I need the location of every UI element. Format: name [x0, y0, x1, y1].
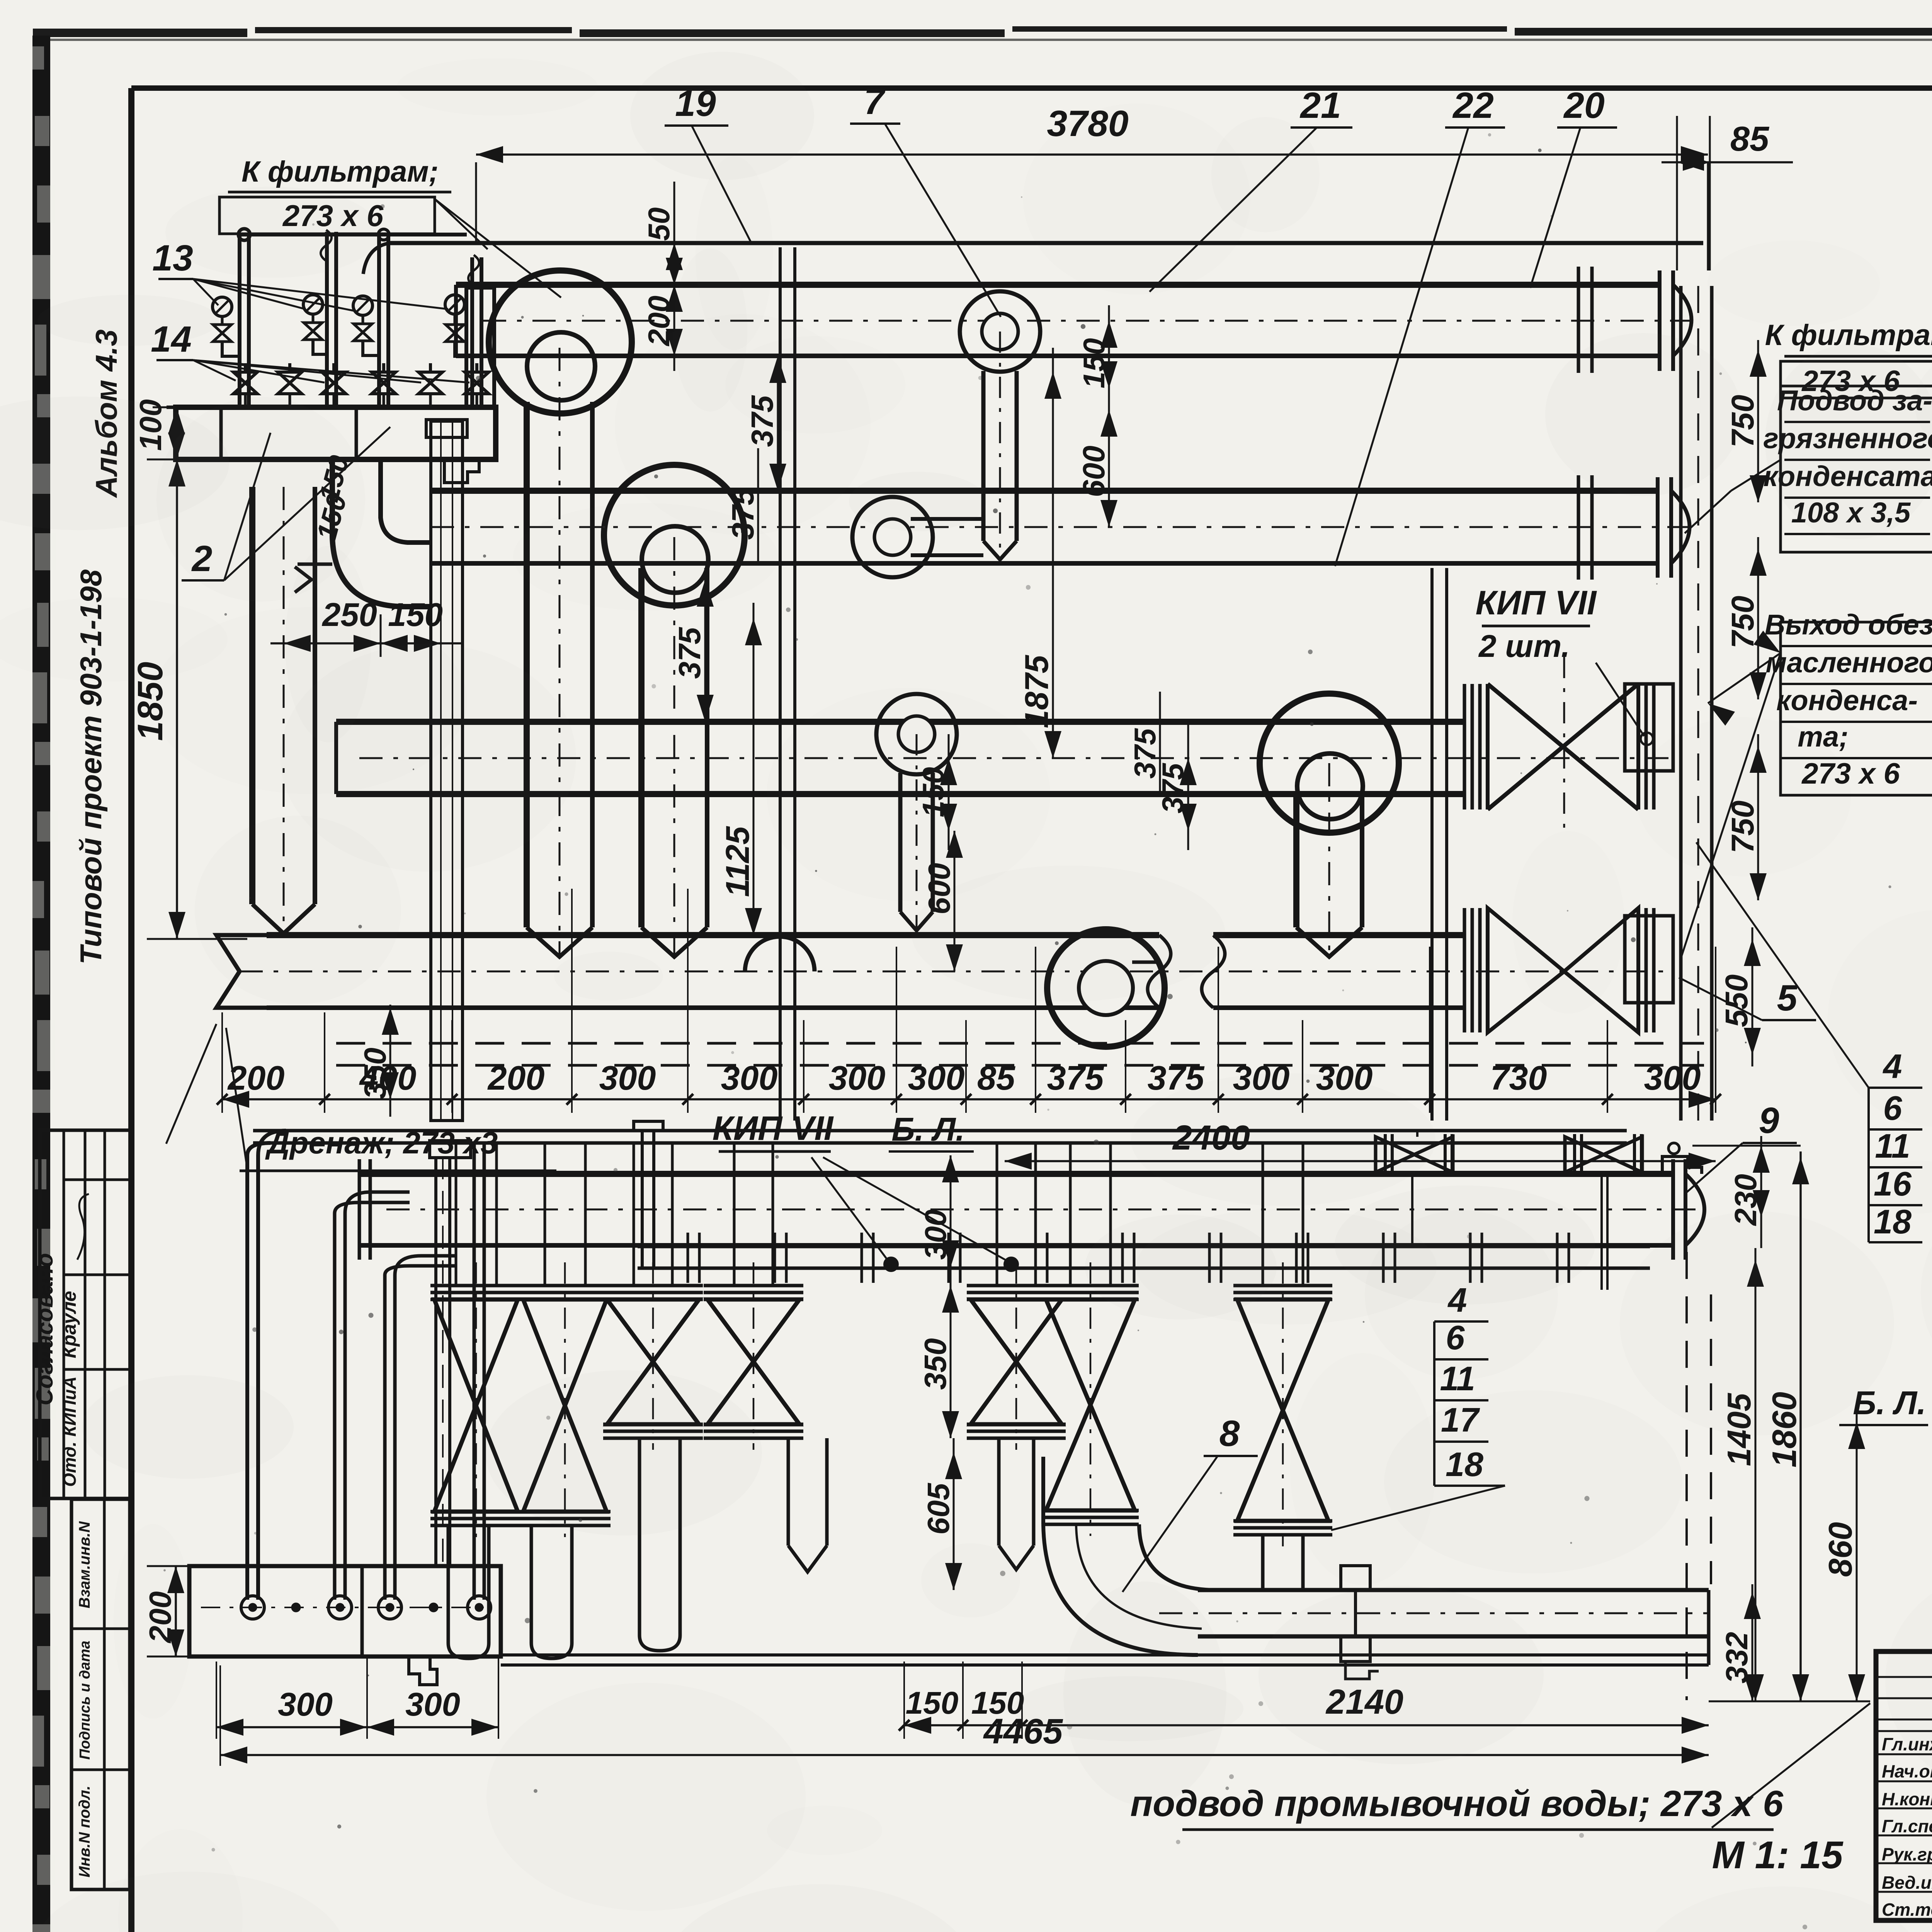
- svg-text:300: 300: [1644, 1059, 1701, 1097]
- dim 1850: [131, 459, 247, 939]
- text Подпись и дата: [77, 1641, 93, 1760]
- text Альбом 4.3: [89, 330, 123, 498]
- dim 300 300 plate: [216, 1658, 498, 1739]
- svg-text:Подпись и дата: Подпись и дата: [77, 1641, 93, 1760]
- valve V3 stems up: [634, 1143, 672, 1286]
- dim 375 e: [1128, 692, 1162, 796]
- svg-text:605: 605: [921, 1483, 956, 1535]
- valve V6 bottom big: [1042, 1262, 1139, 1536]
- left margin lower table: [71, 1499, 130, 1889]
- valve V1 stems up: [456, 1143, 497, 1286]
- bottomview rail: [638, 1247, 1650, 1268]
- callout 22: [1335, 85, 1505, 566]
- plan top outline: [363, 243, 1703, 274]
- callout 19: [665, 83, 752, 243]
- callout 9: [1685, 1100, 1797, 1194]
- svg-text:К фильтрам;: К фильтрам;: [241, 155, 439, 188]
- dim 350: [358, 1005, 399, 1117]
- valve V6 elbow: [1043, 1457, 1217, 1655]
- svg-text:730: 730: [1490, 1059, 1547, 1097]
- valve V3 bottom med: [603, 1262, 703, 1450]
- valve V4 stems up: [734, 1143, 773, 1286]
- donut D3 pipe down: [900, 734, 933, 930]
- valve V7 bottom big: [1233, 1262, 1332, 1546]
- valve BT1 plan: [1464, 657, 1654, 831]
- dim 100: [133, 399, 185, 459]
- plan stand column: [426, 420, 467, 1121]
- valve V2 stems up: [545, 1143, 585, 1286]
- text Типовой проект 903-1-198: [74, 569, 108, 964]
- valve V6 stems up: [1070, 1143, 1111, 1286]
- right flange box upper: [1625, 684, 1673, 771]
- dim 150 150 rot: [311, 452, 355, 544]
- dim 85 top: [1662, 116, 1793, 270]
- svg-text:300: 300: [405, 1686, 460, 1723]
- loop circle C3: [1260, 694, 1399, 833]
- dim 750 a: [1725, 340, 1767, 502]
- kip7 plan label: [1476, 583, 1653, 745]
- bottomview rail posts: [688, 1233, 1569, 1283]
- svg-text:860: 860: [1822, 1522, 1859, 1577]
- header bar foot: [444, 459, 479, 483]
- donut D1 pipe down: [983, 332, 1017, 560]
- label Выход обезмасленного: [1681, 609, 1932, 958]
- svg-text:Отд. КИПиА: Отд. КИПиА: [60, 1376, 80, 1487]
- scan edge left binding strip: [32, 36, 58, 1932]
- svg-text:9: 9: [1759, 1100, 1779, 1141]
- svg-text:М 1: 15: М 1: 15: [1712, 1833, 1843, 1877]
- callout 5 mid: [1679, 978, 1816, 1020]
- valve V3 drop: [639, 1438, 680, 1651]
- bottom ref line: [1687, 1252, 1870, 1701]
- label подвод промывочной воды: [1130, 1703, 1870, 1830]
- valve V4 drop: [788, 1438, 827, 1572]
- svg-text:Взам.инв.N: Взам.инв.N: [76, 1521, 93, 1608]
- svg-text:300: 300: [908, 1059, 965, 1097]
- dim 2140: [904, 1662, 1709, 1739]
- plan column mid: [780, 247, 795, 1121]
- top valve TV1: [1376, 1131, 1453, 1247]
- svg-text:300: 300: [829, 1059, 886, 1097]
- pipe P2 right cap: [1658, 477, 1690, 578]
- svg-text:300: 300: [721, 1059, 778, 1097]
- dim 860: [1822, 1414, 1865, 1701]
- dim 1405: [1721, 1248, 1764, 1701]
- loop pipe C2 down: [641, 537, 707, 957]
- dim 150 150: [899, 1685, 1027, 1731]
- svg-text:7: 7: [864, 81, 886, 122]
- svg-text:50: 50: [642, 207, 676, 241]
- pipe P3 plan: [336, 722, 1673, 794]
- bottomview pipe P1b: [359, 1159, 1700, 1260]
- dim 600 a: [1077, 410, 1117, 527]
- svg-text:600: 600: [1077, 446, 1111, 497]
- dim 300 bl: [918, 1155, 959, 1267]
- bottomview base plate: [189, 1566, 501, 1656]
- gauge G4: [445, 295, 464, 324]
- pipe P1 plan top: [456, 285, 1700, 356]
- pipe P1 clamp: [1578, 267, 1592, 373]
- gauge G1: [213, 297, 232, 325]
- svg-text:21: 21: [1299, 85, 1341, 126]
- valve V1 bottom big: [430, 1262, 522, 1537]
- dim 1125: [719, 603, 762, 935]
- callout 8: [1122, 1413, 1258, 1592]
- pipe P2 plan: [431, 491, 1696, 563]
- svg-text:300: 300: [599, 1059, 656, 1097]
- svg-text:20: 20: [1563, 85, 1605, 126]
- svg-text:Крауле: Крауле: [58, 1291, 80, 1359]
- pipe P3 bottom thin: [501, 1655, 1709, 1665]
- label БЛ plan: [889, 1111, 974, 1151]
- dim 200 v: [642, 285, 683, 356]
- riser pipes: [238, 229, 494, 407]
- loop circle C1: [489, 270, 632, 413]
- bottomview plate foot: [409, 1656, 437, 1685]
- bottomview stand2: [634, 1121, 663, 1269]
- pipe P2 bottom: [1159, 1590, 1709, 1665]
- callout 2: [182, 427, 390, 580]
- donut D1: [960, 291, 1040, 372]
- label БЛ bottom: [1839, 1385, 1928, 1425]
- dim 375 a: [745, 356, 786, 491]
- dim 750 b: [1725, 537, 1767, 699]
- svg-text:1125: 1125: [719, 826, 756, 897]
- svg-text:1875: 1875: [1019, 655, 1055, 728]
- donut D3: [876, 694, 957, 774]
- dim 600 b: [922, 831, 963, 971]
- callout col 4-18 bottom: [1331, 1281, 1505, 1530]
- dim 375 c: [726, 448, 760, 564]
- dim 605 bl: [921, 1438, 962, 1590]
- dim 2400: [1005, 1119, 1716, 1170]
- svg-text:Н.контр.: Н.контр.: [1882, 1789, 1932, 1809]
- text Отд.КИПиА: [60, 1376, 80, 1487]
- svg-text:350: 350: [918, 1338, 952, 1389]
- dim 250 150: [270, 597, 464, 657]
- svg-text:375: 375: [672, 627, 707, 679]
- callout 21: [1150, 85, 1352, 292]
- dim 200 plate: [143, 1566, 189, 1656]
- text Согласовано: [32, 1253, 58, 1405]
- svg-text:22: 22: [1452, 85, 1494, 126]
- dim 3780: [476, 103, 1708, 270]
- title signatures: [1882, 1733, 1932, 1920]
- gauge valves item13: [213, 323, 472, 356]
- dim 375 f: [1156, 723, 1197, 850]
- dim 1860: [1692, 1146, 1809, 1701]
- left margin upper table: [40, 1130, 130, 1498]
- title block grid: [1876, 1651, 1932, 1920]
- svg-text:масленного: масленного: [1766, 646, 1932, 679]
- half donut D4 on P4: [745, 937, 815, 971]
- signature squiggle margin: [77, 1194, 89, 1260]
- svg-text:конденса-: конденса-: [1776, 684, 1918, 716]
- pipe P1 right flange: [1660, 270, 1692, 371]
- svg-text:11: 11: [1875, 1127, 1910, 1165]
- bottomview left drop pipes: [247, 1131, 484, 1600]
- gauge G3: [353, 296, 372, 325]
- valve V7 stems up: [1263, 1143, 1303, 1286]
- dim 550: [1719, 927, 1761, 1066]
- svg-text:750: 750: [1725, 596, 1760, 649]
- callout 7: [850, 81, 1001, 317]
- svg-text:8: 8: [1219, 1413, 1240, 1454]
- bottomview P1b end cap: [1673, 1159, 1704, 1260]
- valve V1 drop: [448, 1526, 489, 1658]
- valve V2 bottom big: [519, 1262, 611, 1537]
- pipe P2 tee box: [1341, 1566, 1379, 1679]
- text Инв.N подл.: [76, 1786, 93, 1878]
- label КИП VII bottom: [713, 1109, 1009, 1262]
- pipe P2 clamp: [1578, 475, 1592, 580]
- svg-text:Инв.N подл.: Инв.N подл.: [76, 1786, 93, 1878]
- dim 50: [642, 182, 683, 371]
- svg-text:Гл.спец.: Гл.спец.: [1882, 1816, 1932, 1836]
- bottomview sensor dots: [884, 1258, 1018, 1271]
- svg-text:300: 300: [278, 1686, 333, 1723]
- plan hidden pipe dashed: [336, 1043, 1704, 1065]
- svg-text:85: 85: [1730, 120, 1770, 158]
- bottomview thin supply pipe: [253, 1131, 1627, 1143]
- valve BT2 plan: [1464, 908, 1654, 1032]
- valve V5 bottom med: [967, 1262, 1066, 1450]
- callout col 4-18 plan: [1696, 842, 1922, 1242]
- svg-text:85: 85: [977, 1059, 1015, 1097]
- header bar: [167, 407, 496, 459]
- svg-text:150: 150: [906, 1685, 959, 1721]
- small valves item14 row: [233, 363, 489, 407]
- pipe P4 plan collector: [216, 935, 1673, 1008]
- svg-text:375: 375: [1047, 1059, 1104, 1097]
- left elbow: [295, 459, 431, 607]
- loop pipe C3 down: [1296, 763, 1362, 957]
- svg-text:Вед.инж.: Вед.инж.: [1882, 1872, 1932, 1893]
- loop circle C2: [604, 465, 745, 605]
- bottomview pipe ends in plate: [241, 1596, 491, 1619]
- svg-text:200: 200: [487, 1059, 545, 1097]
- gauge G2: [303, 295, 323, 324]
- top valve TV2: [1565, 1134, 1642, 1290]
- right flange box lower: [1625, 916, 1673, 1003]
- label К фильтрам right: [1765, 315, 1932, 446]
- dim 4465: [220, 1665, 1709, 1766]
- text Крауле: [58, 1291, 80, 1359]
- label К фильтрам top: [219, 155, 561, 298]
- bottomview stand1: [430, 1141, 471, 1566]
- svg-text:Выход обез-: Выход обез-: [1765, 609, 1932, 641]
- scan edge top band: [33, 26, 1932, 41]
- svg-text:Рук.гр.: Рук.гр.: [1882, 1844, 1932, 1864]
- svg-text:Нач.отд.: Нач.отд.: [1882, 1761, 1932, 1781]
- callout 14: [151, 319, 469, 383]
- dim 332: [1719, 1584, 1761, 1701]
- bottomview end bracket: [1662, 1143, 1702, 1174]
- svg-text:400: 400: [359, 1059, 417, 1097]
- label М 1:15: [1712, 1833, 1843, 1877]
- loop pipe C1 down: [527, 348, 592, 957]
- valve V5 drop: [999, 1438, 1034, 1570]
- dim 150 c: [916, 734, 957, 850]
- label Подвод загрязненного конденсата: [1685, 384, 1932, 552]
- svg-text:2 шт.: 2 шт.: [1478, 629, 1570, 664]
- dim 230 right: [1728, 1136, 1770, 1248]
- plan right edge: [1681, 286, 1712, 1121]
- valve V2 drop: [531, 1526, 572, 1658]
- dim 375 d: [672, 568, 714, 723]
- left vertical pipe: [252, 487, 315, 934]
- callout 13: [152, 238, 448, 311]
- u-turn C4 on P4: [1047, 929, 1165, 1047]
- valve V5 stems up: [997, 1143, 1036, 1286]
- plan column right: [1432, 568, 1447, 1121]
- valve V7 stem down: [1263, 1535, 1303, 1590]
- dim 750 c: [1725, 734, 1767, 900]
- svg-text:Согласовано: Согласовано: [32, 1253, 58, 1405]
- label Дренаж 273x3: [226, 1028, 556, 1171]
- callout 20: [1530, 85, 1617, 288]
- leader bottomleft corner: [166, 1024, 216, 1144]
- valve V4 bottom med: [704, 1262, 803, 1450]
- dim 350 bl: [918, 1267, 959, 1438]
- svg-text:КИП VII: КИП VII: [1476, 583, 1597, 622]
- dim 150 b: [1077, 305, 1117, 410]
- text Взам.инв.N: [76, 1521, 93, 1608]
- plan dimension chain: [217, 889, 1721, 1113]
- donut D2 elbow: [852, 497, 983, 577]
- dim 1875: [1019, 348, 1061, 758]
